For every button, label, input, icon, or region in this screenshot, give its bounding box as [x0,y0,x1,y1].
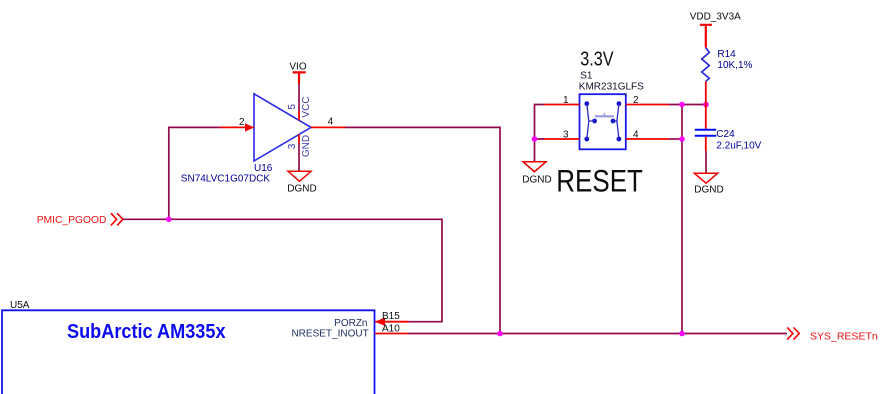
svg-text:5: 5 [287,104,298,110]
svg-text:10K,1%: 10K,1% [717,60,752,71]
svg-text:PMIC_PGOOD: PMIC_PGOOD [37,215,107,226]
switch actuator bridge [595,115,614,117]
wire C24 to DGND [705,151,707,173]
pin 4 [626,138,669,140]
svg-text:NRESET_INOUT: NRESET_INOUT [291,329,368,340]
pin B15 PORZn [375,321,409,323]
port PMIC_PGOOD chevron [111,213,123,225]
svg-text:3.3V: 3.3V [580,48,614,70]
switch S1 KMR231GLFS body [580,94,626,149]
pin 2 [626,104,669,106]
wire bottom SYS_RESETn rail [409,333,788,335]
svg-text:4: 4 [633,130,639,141]
ground DGND under switch [523,162,546,172]
pin 2 buffer input [220,126,254,128]
svg-text:PORZn: PORZn [334,318,367,329]
wire buffer output to SYS_RESETn rail [345,127,500,333]
resistor R14 [702,48,710,82]
svg-text:SN74LVC1G07DCK: SN74LVC1G07DCK [181,173,271,184]
svg-text:A10: A10 [382,324,400,335]
wire switch pin4 to vertical net [669,138,682,140]
svg-text:S1: S1 [580,70,593,81]
wire buffer GND pin to DGND [298,143,300,171]
ground DGND under buffer [288,171,311,181]
wire vertical net down to rail [681,105,683,334]
svg-text:U5A: U5A [10,300,30,311]
wire from node A up to buffer input [169,127,220,219]
power symbol VIO [293,72,306,83]
wire switch pin2 to R14/C24 rail [669,104,706,106]
svg-text:B15: B15 [382,311,400,322]
node G junction rail [679,331,685,337]
capacitor C24 [695,130,716,136]
svg-text:VIO: VIO [289,62,306,73]
svg-text:RESET: RESET [556,164,643,199]
IC U5A SubArctic AM335x block [2,310,375,394]
switch contacts dots [584,101,589,106]
node F junction pin4 net [679,136,685,142]
svg-text:R14: R14 [717,49,736,60]
pin 3 [544,138,580,140]
svg-text:DGND: DGND [287,184,316,195]
svg-text:KMR231GLFS: KMR231GLFS [579,82,644,93]
pin 1 [544,104,580,106]
pin 5 VCC [298,111,300,121]
svg-text:3: 3 [563,130,569,141]
switch contact arms [587,104,595,139]
svg-text:2: 2 [239,117,245,128]
pin 4 buffer output [311,126,345,128]
svg-text:GND: GND [301,135,312,157]
node D junction pin2 net [679,102,685,108]
wire VIO to buffer VCC [298,84,300,112]
svg-text:4: 4 [328,117,334,128]
svg-text:2: 2 [633,95,639,106]
node A junction PMIC_PGOOD [166,217,172,223]
svg-text:DGND: DGND [522,175,551,186]
node C junction switch pins 1-3 [532,136,538,142]
wire PMIC_PGOOD net horizontal and down to B15 [124,219,443,321]
svg-text:1: 1 [563,95,569,106]
ground DGND under C24 [694,173,717,183]
svg-text:2.2uF,10V: 2.2uF,10V [716,141,761,152]
svg-text:SYS_RESETn: SYS_RESETn [810,331,878,343]
node E junction R14 C24 [703,102,709,108]
power symbol VDD_3V3A [700,25,712,48]
buffer U16 [254,94,311,161]
wire switch left side to DGND [535,105,545,163]
svg-text:VCC: VCC [301,96,312,117]
node B junction buffer output on rail [497,331,503,337]
svg-text:3: 3 [287,143,298,149]
port SYS_RESETn chevron [787,327,799,339]
pin 3 GND [298,135,300,144]
svg-text:SubArctic AM335x: SubArctic AM335x [67,320,226,343]
svg-text:DGND: DGND [694,185,723,196]
pin A10 NRESET_INOUT [375,333,409,335]
svg-text:C24: C24 [716,129,735,140]
svg-text:VDD_3V3A: VDD_3V3A [690,12,741,23]
